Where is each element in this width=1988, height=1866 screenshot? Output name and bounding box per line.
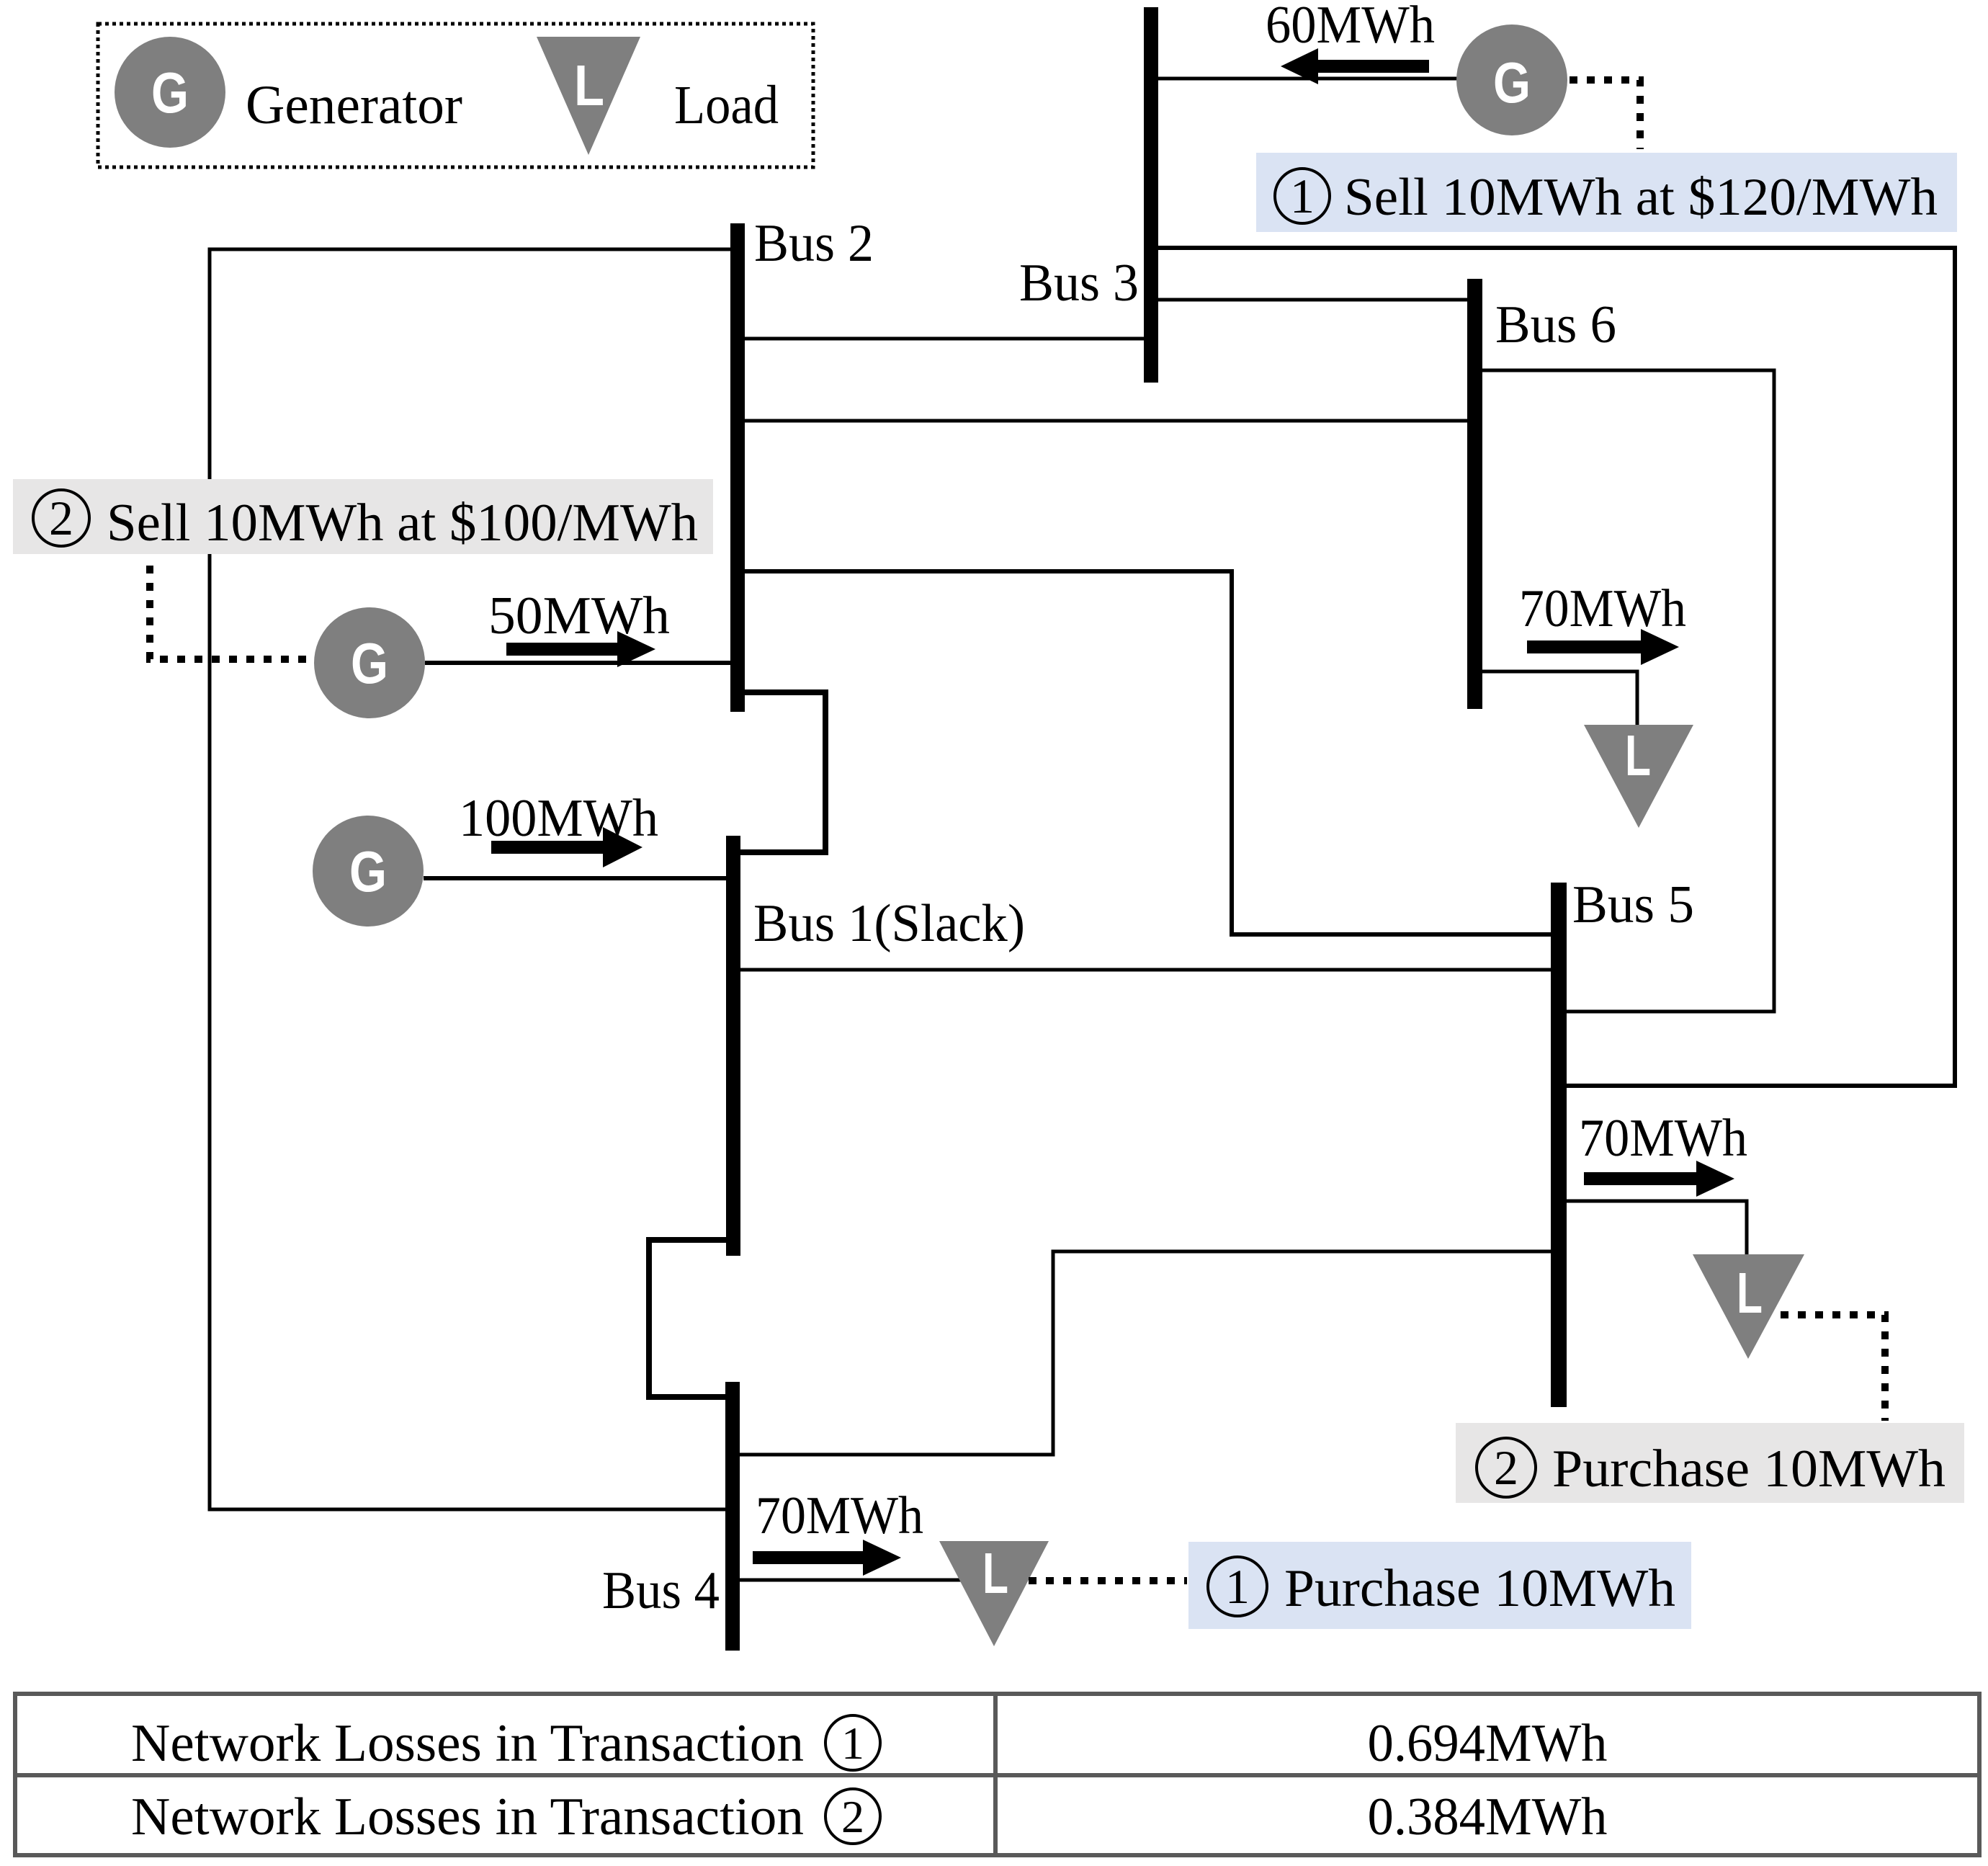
svg-text:G: G <box>1493 50 1531 115</box>
wire Bus6 to Bus5 (right inner) <box>1482 370 1774 1012</box>
legend generator symbol <box>115 37 225 148</box>
wire Bus4 to Bus5 <box>740 1251 1551 1455</box>
label transaction 2 sell <box>13 479 713 554</box>
svg-text:1: 1 <box>1290 169 1315 223</box>
svg-text:100MWh: 100MWh <box>459 789 658 848</box>
wire Bus1 to Bus5 <box>740 968 1551 972</box>
bus bar Bus 5 <box>1551 883 1567 1407</box>
svg-text:70MWh: 70MWh <box>756 1486 923 1545</box>
bus bar Bus 6 <box>1467 279 1482 709</box>
generator G 100MWh <box>313 816 424 927</box>
bus bar Bus 2 <box>730 223 745 712</box>
dotted link label2 to generator 50MWh <box>150 566 314 659</box>
load L at Bus4 <box>939 1541 1049 1646</box>
svg-text:Network Losses in Transaction: Network Losses in Transaction <box>131 1787 804 1847</box>
wire Bus3 to Bus5 (right outer) <box>1158 248 1955 1086</box>
svg-text:L: L <box>574 53 604 117</box>
load L at Bus5 <box>1693 1254 1804 1359</box>
load L at Bus6 <box>1584 725 1693 828</box>
svg-text:G: G <box>351 631 388 695</box>
svg-text:Sell 10MWh at $120/MWh: Sell 10MWh at $120/MWh <box>1344 168 1938 227</box>
svg-text:Bus 2: Bus 2 <box>754 214 874 273</box>
svg-text:Bus 5: Bus 5 <box>1572 875 1694 934</box>
wire Bus3 to Bus6 <box>1158 298 1467 302</box>
svg-text:Purchase 10MWh: Purchase 10MWh <box>1552 1439 1946 1499</box>
svg-text:Sell 10MWh at $100/MWh: Sell 10MWh at $100/MWh <box>107 494 698 553</box>
legend box <box>98 24 813 167</box>
svg-text:L: L <box>982 1541 1008 1605</box>
svg-text:0.384MWh: 0.384MWh <box>1368 1787 1608 1847</box>
label transaction 2 purchase <box>1456 1423 1964 1503</box>
wire generator 60MWh to Bus3 <box>1158 77 1459 81</box>
wire Bus4 to load <box>740 1579 965 1582</box>
svg-text:Bus 3: Bus 3 <box>1019 254 1139 313</box>
svg-text:G: G <box>151 61 189 125</box>
svg-text:2: 2 <box>49 491 73 545</box>
dotted link load5 to label <box>1781 1315 1885 1421</box>
bus bar Bus 4 <box>725 1382 740 1651</box>
flow arrow 60MWh (left) <box>1281 48 1429 84</box>
flow arrow 70MWh Bus6 (right) <box>1527 629 1679 665</box>
svg-text:0.694MWh: 0.694MWh <box>1368 1714 1608 1773</box>
flow arrow 100MWh (right) <box>491 827 642 867</box>
table network losses <box>15 1694 1979 1855</box>
wire Bus2 to Bus3 <box>744 337 1144 341</box>
wire generator 100MWh to Bus1 <box>424 876 726 880</box>
flow arrow 70MWh Bus5 (right) <box>1584 1161 1734 1197</box>
wire Bus2 to Bus4 (left loop) <box>210 249 730 1509</box>
wire Bus1 to Bus4 U-link <box>649 1240 726 1397</box>
flow arrow 70MWh Bus4 (right) <box>753 1540 901 1576</box>
svg-text:1: 1 <box>841 1718 864 1769</box>
label transaction 1 purchase <box>1188 1542 1691 1629</box>
wire generator 50MWh to Bus2 <box>425 661 730 665</box>
svg-text:L: L <box>1737 1261 1763 1325</box>
svg-text:2: 2 <box>1494 1440 1518 1495</box>
svg-text:70MWh: 70MWh <box>1519 579 1686 638</box>
svg-text:Generator: Generator <box>246 75 462 135</box>
svg-text:Load: Load <box>674 75 779 135</box>
dotted link load4 to label <box>1029 1577 1187 1584</box>
label transaction 1 sell <box>1256 153 1957 232</box>
svg-text:Network Losses in Transaction: Network Losses in Transaction <box>131 1714 804 1773</box>
legend load symbol <box>537 37 640 155</box>
svg-text:L: L <box>1625 723 1651 787</box>
svg-text:Bus 1(Slack): Bus 1(Slack) <box>753 894 1025 953</box>
bus bar Bus 1 <box>726 836 740 1256</box>
wire Bus2 to Bus6 <box>744 419 1467 423</box>
svg-text:Purchase 10MWh: Purchase 10MWh <box>1284 1559 1675 1618</box>
svg-text:Bus 4: Bus 4 <box>602 1561 720 1620</box>
wire Bus5 to load <box>1567 1201 1747 1256</box>
dotted link generator1 to label <box>1570 80 1640 149</box>
generator G 50MWh <box>314 607 425 718</box>
generator G top-right <box>1456 24 1567 135</box>
wire Bus2 to Bus1 step <box>740 692 825 852</box>
svg-text:70MWh: 70MWh <box>1579 1109 1747 1168</box>
wire Bus2 to Bus5 <box>744 571 1551 934</box>
svg-text:G: G <box>349 839 387 903</box>
svg-text:50MWh: 50MWh <box>488 586 670 646</box>
svg-text:Bus 6: Bus 6 <box>1495 295 1616 354</box>
svg-text:2: 2 <box>841 1791 864 1842</box>
svg-text:1: 1 <box>1225 1559 1250 1614</box>
svg-text:60MWh: 60MWh <box>1266 0 1435 55</box>
flow arrow 50MWh (right) <box>506 631 655 667</box>
wire Bus6 to load <box>1482 671 1637 726</box>
bus bar Bus 3 <box>1144 7 1158 383</box>
